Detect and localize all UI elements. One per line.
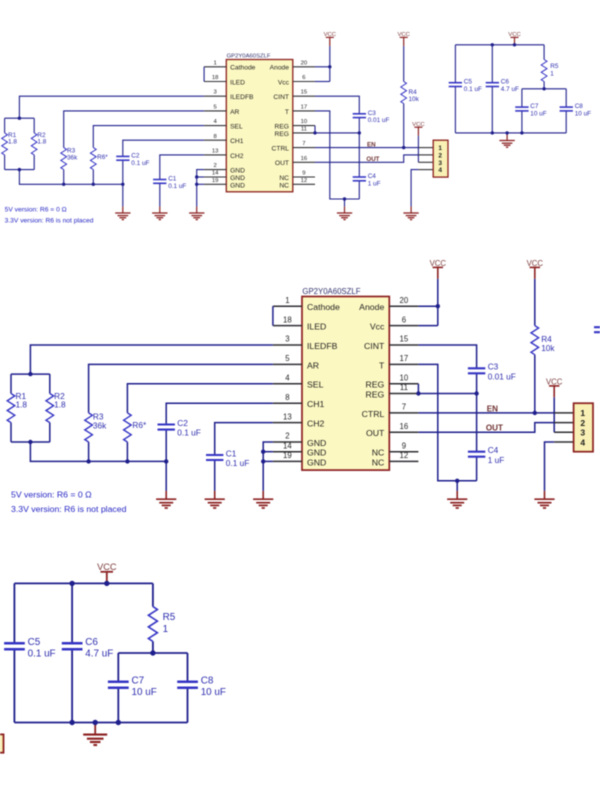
capacitor C5 0.1 uF (bottom) xyxy=(4,637,56,660)
IC pin 3 ILEDFB stub+label (top) xyxy=(204,90,254,101)
svg-text:C5: C5 xyxy=(28,637,41,648)
wire: Anode to VCC (middle) xyxy=(418,305,437,307)
wire: C7 lower lead (top) xyxy=(521,111,523,133)
junction node REG/C3/C4 (top) xyxy=(358,131,361,134)
svg-text:GND: GND xyxy=(230,182,245,189)
svg-text:36k: 36k xyxy=(67,154,78,161)
svg-text:T: T xyxy=(285,109,289,116)
wire: Anode to VCC (top) xyxy=(315,66,330,68)
svg-text:C7: C7 xyxy=(530,103,539,110)
wire: VCC drop (middle) xyxy=(437,279,439,326)
svg-text:C6: C6 xyxy=(85,637,98,648)
svg-text:0.1 uF: 0.1 uF xyxy=(177,428,201,438)
svg-text:REG: REG xyxy=(365,389,384,399)
wire: C4 upper lead (middle) xyxy=(476,394,478,452)
junction node C6 top (bottom) xyxy=(69,581,74,586)
svg-text:C4: C4 xyxy=(368,173,377,180)
svg-text:NC: NC xyxy=(279,182,289,189)
svg-text:10k: 10k xyxy=(541,343,555,353)
wire: C8 upper lead (top) xyxy=(565,89,567,107)
junction node R1R2 bottom (middle) xyxy=(28,440,32,444)
wire: R1 leads (middle) xyxy=(10,374,12,393)
svg-text:OUT: OUT xyxy=(366,428,385,438)
junction node C4 gnd rail (top) xyxy=(343,197,346,200)
svg-text:CH1: CH1 xyxy=(230,138,244,145)
svg-text:1.8: 1.8 xyxy=(54,400,66,410)
svg-text:C1: C1 xyxy=(168,176,177,183)
header J1 pin 3 stub (middle) xyxy=(554,431,573,433)
svg-text:5V version: R6 = 0 Ω: 5V version: R6 = 0 Ω xyxy=(11,490,92,500)
svg-text:VCC: VCC xyxy=(430,259,447,268)
svg-text:SEL: SEL xyxy=(230,124,243,131)
junction node rail/R3 (middle) xyxy=(86,459,90,463)
svg-text:10 uF: 10 uF xyxy=(530,110,546,117)
junction node VCC tap (bottom) xyxy=(104,581,109,586)
capacitor C3 0.01 uF (middle) xyxy=(468,362,516,382)
svg-text:Cathode: Cathode xyxy=(230,65,256,72)
capacitor C7 10 uF (top) xyxy=(515,103,547,117)
IC pin 5 AR stub+label (middle) xyxy=(273,354,319,370)
connector body fragment at left edge (bottom) xyxy=(0,734,4,752)
wire: C3 lower lead (middle) xyxy=(476,373,478,393)
svg-text:10 uF: 10 uF xyxy=(201,687,226,698)
wire: R1/R2 bottom rail (middle) xyxy=(11,441,50,443)
wire: R1 leads (top) xyxy=(4,118,6,133)
svg-text:3.3V version: R6 is not placed: 3.3V version: R6 is not placed xyxy=(11,504,127,514)
wire: ILEDFB net to R1/R2 (top) xyxy=(19,96,204,118)
capacitor C2 0.1 uF (middle) xyxy=(158,418,201,438)
wire: C5 lower lead (top) xyxy=(454,87,456,133)
IC pin 2 GND stub+label (top) xyxy=(204,163,245,175)
svg-text:VCC: VCC xyxy=(527,259,544,268)
svg-text:6: 6 xyxy=(402,315,406,324)
svg-text:CTRL: CTRL xyxy=(272,146,290,153)
resistor R6 (not placed) (top) xyxy=(90,148,108,170)
svg-text:Vcc: Vcc xyxy=(278,79,290,86)
junction node VCC tap (top) xyxy=(513,43,516,46)
wire: GND pin19 link (top) xyxy=(197,183,204,185)
wire: OUT net (middle) xyxy=(418,423,554,433)
wire: R6 lower lead (top) xyxy=(92,170,94,185)
svg-text:1.8: 1.8 xyxy=(8,139,17,146)
svg-text:1: 1 xyxy=(580,408,585,418)
wire: Cathode-ILED loop (middle) xyxy=(272,306,274,325)
svg-text:REG: REG xyxy=(365,380,384,390)
wire: C4 lower lead (middle) xyxy=(476,457,478,481)
svg-text:18: 18 xyxy=(283,315,292,324)
svg-text:REG: REG xyxy=(275,124,290,131)
wire: C6 branch (bottom) xyxy=(71,583,73,643)
svg-text:13: 13 xyxy=(212,148,219,154)
svg-text:0.1 uF: 0.1 uF xyxy=(168,183,186,190)
svg-text:0.1 uF: 0.1 uF xyxy=(28,648,56,659)
ground under C4 (middle) xyxy=(447,491,467,508)
junction node C7 bottom (bottom) xyxy=(116,720,121,725)
wire: REG pin10 elbow (middle) xyxy=(417,384,419,394)
wire: AR net (middle) xyxy=(89,364,273,413)
svg-text:7: 7 xyxy=(302,141,305,147)
svg-text:4: 4 xyxy=(214,119,218,125)
svg-text:ILED: ILED xyxy=(230,79,245,86)
wire: R2 upper lead (middle) xyxy=(49,374,51,393)
IC pin 16 OUT stub+label (middle) xyxy=(366,422,418,438)
svg-text:Anode: Anode xyxy=(359,302,384,312)
wire: REG bus to C3/C4 (top) xyxy=(315,132,359,134)
wire: SEL net (middle) xyxy=(127,384,273,413)
wire: bank top rail (bottom) xyxy=(14,582,153,584)
IC pin 12 NC stub+label (middle) xyxy=(372,451,419,467)
IC pin 6 Vcc stub+label (middle) xyxy=(370,315,419,331)
svg-text:C3: C3 xyxy=(368,110,377,117)
wire: ILEDFB net to R1/R2 (middle) xyxy=(30,345,273,374)
junction node C6 top (top) xyxy=(491,43,494,46)
svg-text:19: 19 xyxy=(283,451,292,460)
resistor R1 1.8 (middle) xyxy=(7,391,27,423)
svg-text:16: 16 xyxy=(400,422,409,431)
IC pin 18 ILED stub+label (top) xyxy=(204,75,245,86)
wire: C7 lower lead (bottom) xyxy=(117,688,119,723)
svg-text:8: 8 xyxy=(285,393,289,402)
svg-text:11: 11 xyxy=(301,126,307,132)
wire: R5 upper lead (top) xyxy=(543,45,545,60)
wire: C5 branch (top) xyxy=(454,45,456,83)
svg-text:10 uF: 10 uF xyxy=(575,110,591,117)
junction node GND pin14 (middle) xyxy=(261,450,265,454)
svg-text:Anode: Anode xyxy=(270,65,290,72)
svg-text:ILED: ILED xyxy=(307,322,326,332)
resistor R5 1 (bottom) xyxy=(148,607,175,642)
svg-text:14: 14 xyxy=(212,171,219,177)
IC pin 8 CH1 stub+label (middle) xyxy=(273,393,325,409)
svg-text:1.8: 1.8 xyxy=(37,139,46,146)
capacitor C3 0.01 uF (top) xyxy=(353,110,390,124)
resistor R4 10k (top) xyxy=(401,82,420,104)
wire: C8 lower lead (bottom) xyxy=(187,688,189,723)
svg-text:R5: R5 xyxy=(163,612,176,623)
capacitor C1 0.1 uF (middle) xyxy=(206,448,249,468)
IC pin 18 ILED stub+label (middle) xyxy=(273,315,326,331)
svg-text:15: 15 xyxy=(301,90,308,96)
ground under C4 (top) xyxy=(337,207,352,220)
svg-text:GND: GND xyxy=(307,457,326,467)
svg-text:C1: C1 xyxy=(226,448,237,458)
junction node ILEDFB/R1R2 top (top) xyxy=(18,117,21,120)
svg-text:20: 20 xyxy=(301,60,308,66)
IC pin 9 NC stub+label (top) xyxy=(279,171,315,182)
svg-text:C3: C3 xyxy=(488,362,499,372)
svg-text:3: 3 xyxy=(214,90,218,96)
wire: VCC to header pin3 (top) xyxy=(417,136,419,163)
wire: header pin4 to ground (top) xyxy=(411,170,418,207)
wire: bank ground stub (top) xyxy=(506,133,508,135)
VCC supply at header (top) xyxy=(412,122,425,136)
svg-text:4: 4 xyxy=(580,437,585,447)
svg-text:10k: 10k xyxy=(409,96,420,103)
wire: CTRL/EN net (top) xyxy=(315,147,418,149)
IC pin 13 CH2 stub+label (top) xyxy=(204,148,244,160)
wire: C4 ground stub (middle) xyxy=(456,481,458,491)
svg-text:0.01 uF: 0.01 uF xyxy=(368,117,390,124)
header J1 pin 3 stub (top) xyxy=(418,161,433,163)
wire: R5 lower lead (bottom) xyxy=(152,641,154,653)
capacitor C8 10 uF (top) xyxy=(560,103,592,117)
junction node GND pin14 (top) xyxy=(195,175,198,178)
wire: C2 lower lead (middle) xyxy=(165,430,167,462)
svg-text:0.1 uF: 0.1 uF xyxy=(131,160,149,167)
svg-text:0.1 uF: 0.1 uF xyxy=(226,458,250,468)
svg-text:GND: GND xyxy=(307,448,326,458)
wire: C1 lower lead (top) xyxy=(159,183,161,206)
svg-text:0.1 uF: 0.1 uF xyxy=(464,86,482,93)
op-amp/IC U1 GP2Y0A60SZLF body (middle) xyxy=(302,287,389,470)
wire: CH1 net to C2 (top) xyxy=(123,140,204,156)
wire: OUT net (top) xyxy=(315,155,418,162)
op-amp/IC U1 GP2Y0A60SZLF body (top) xyxy=(226,54,292,192)
IC pin 13 CH2 stub+label (middle) xyxy=(273,412,325,428)
junction node C6 bottom (top) xyxy=(491,131,494,134)
junction node R5 bottom (bottom) xyxy=(150,650,155,655)
svg-text:GND: GND xyxy=(307,438,326,448)
svg-text:C5: C5 xyxy=(464,79,473,86)
svg-text:12: 12 xyxy=(400,451,409,460)
wire: C4 upper lead (top) xyxy=(358,133,360,177)
wire: rail to ground stub (middle) xyxy=(165,461,167,491)
svg-text:4.7 uF: 4.7 uF xyxy=(501,86,519,93)
junction node EN/R4 (middle) xyxy=(533,411,537,415)
wire: VCC tap (top) xyxy=(514,43,516,46)
svg-text:9: 9 xyxy=(402,441,406,450)
junction node REG join (top) xyxy=(313,131,316,134)
svg-text:14: 14 xyxy=(283,441,292,450)
svg-text:10 uF: 10 uF xyxy=(132,687,157,698)
svg-text:10: 10 xyxy=(301,119,308,125)
junction node rail/C2 (middle) xyxy=(164,459,168,463)
svg-text:12: 12 xyxy=(301,178,308,184)
svg-text:16: 16 xyxy=(301,156,308,162)
wire: SEL net (top) xyxy=(93,126,204,148)
IC pin 12 NC stub+label (top) xyxy=(279,178,315,190)
svg-text:CINT: CINT xyxy=(364,341,385,351)
wire: C7/C8 mid rail (top) xyxy=(522,88,566,90)
resistor R2 1.8 (top) xyxy=(31,132,46,155)
wire: GND pins bus (middle) xyxy=(263,442,273,491)
wire: VCC to header pin3 (middle) xyxy=(553,397,555,432)
resistor R1 1.8 (top) xyxy=(2,132,18,155)
svg-text:C8: C8 xyxy=(201,675,214,686)
svg-text:SEL: SEL xyxy=(307,380,324,390)
capacitor C1 0.1 uF (top) xyxy=(153,176,186,190)
svg-text:R6*: R6* xyxy=(97,154,108,161)
svg-text:20: 20 xyxy=(400,296,409,305)
svg-text:3.3V version: R6 is not placed: 3.3V version: R6 is not placed xyxy=(5,218,94,225)
resistor R3 36k (middle) xyxy=(85,412,107,442)
wire: Vcc pin link (top) xyxy=(315,81,330,83)
ground under GND pins (middle) xyxy=(253,491,273,508)
VCC supply over IC (middle) xyxy=(430,259,447,279)
svg-text:3: 3 xyxy=(438,160,442,167)
ground under C1 (middle) xyxy=(205,491,225,508)
svg-text:R6*: R6* xyxy=(132,420,147,430)
svg-text:1 uF: 1 uF xyxy=(368,180,381,187)
svg-text:GP2Y0A60SZLF: GP2Y0A60SZLF xyxy=(227,54,271,60)
header J1 pin 1 stub (middle) xyxy=(554,412,573,414)
header J1 pin 2 stub (top) xyxy=(418,154,433,156)
wire: CH1 net to C2 (middle) xyxy=(166,403,273,424)
junction node rail/R6 (top) xyxy=(92,183,95,186)
wire: GND pin14 link (top) xyxy=(197,176,204,178)
IC pin 15 CINT stub+label (middle) xyxy=(364,335,418,351)
wire: C1 lower lead (middle) xyxy=(214,460,216,491)
svg-text:0.01 uF: 0.01 uF xyxy=(488,371,516,381)
svg-text:NC: NC xyxy=(372,448,385,458)
wire: C6 lower lead (bottom) xyxy=(71,649,73,722)
junction node C4 gnd rail (middle) xyxy=(455,479,459,483)
svg-text:T: T xyxy=(379,360,385,370)
wire: C8 upper lead (bottom) xyxy=(187,653,189,682)
wire: Vcc pin link (middle) xyxy=(418,325,437,327)
capacitor C6 4.7 uF (top) xyxy=(486,79,519,93)
ground under bank (top) xyxy=(499,134,514,147)
wire: C8 lower lead (top) xyxy=(565,111,567,133)
svg-text:7: 7 xyxy=(402,403,406,412)
VCC supply over R4 (middle) xyxy=(527,259,544,279)
junction node GND pin19 (middle) xyxy=(261,459,265,463)
svg-text:Vcc: Vcc xyxy=(370,322,385,332)
IC pin 4 SEL stub+label (middle) xyxy=(273,374,324,390)
IC pin 11 REG stub+label (top) xyxy=(275,126,316,137)
wire: GND pin14 link (middle) xyxy=(263,451,273,453)
svg-text:4.7 uF: 4.7 uF xyxy=(85,648,113,659)
wire: AR net (top) xyxy=(64,111,204,148)
wire: C7 upper lead (bottom) xyxy=(117,653,119,682)
VCC supply at header (middle) xyxy=(546,377,563,397)
svg-text:EN: EN xyxy=(487,404,498,413)
wire: C2 lower lead (top) xyxy=(122,160,124,184)
wire: T net down (middle) xyxy=(418,364,476,480)
wire: VCC drop (top) xyxy=(329,46,331,82)
junction node C6 bottom (bottom) xyxy=(69,720,74,725)
IC pin 17 T stub+label (top) xyxy=(285,104,315,115)
wire: rail to ground stub (top) xyxy=(122,184,124,206)
resistor R3 36k (top) xyxy=(61,148,78,170)
junction node VCC/Anode (middle) xyxy=(436,304,440,308)
wire: R6 lower lead (middle) xyxy=(126,442,128,461)
junction node R5 bottom (top) xyxy=(542,87,545,90)
IC pin 15 CINT stub+label (top) xyxy=(273,90,315,101)
svg-text:Cathode: Cathode xyxy=(307,302,340,312)
IC pin 5 AR stub+label (top) xyxy=(204,104,239,115)
svg-text:C2: C2 xyxy=(177,418,188,428)
VCC supply over IC (top) xyxy=(324,32,337,46)
svg-text:18: 18 xyxy=(212,75,219,81)
header J1 1x4 body (top) xyxy=(433,140,448,177)
wire: C7 upper lead (top) xyxy=(521,89,523,107)
wire: R1/R2 top rail (top) xyxy=(5,117,35,119)
capacitor C5 plate fragment at right edge (middle) xyxy=(594,327,600,332)
svg-text:1: 1 xyxy=(163,624,169,635)
junction node rail/R3 (top) xyxy=(62,183,65,186)
VCC supply over R4 (top) xyxy=(397,32,410,46)
capacitor C8 10 uF (bottom) xyxy=(177,675,226,698)
svg-text:1: 1 xyxy=(214,60,217,66)
svg-text:GND: GND xyxy=(230,168,245,175)
junction node bank ground (bottom) xyxy=(93,720,98,725)
svg-text:VCC: VCC xyxy=(97,562,117,572)
wire: R4 lower lead (middle) xyxy=(534,355,536,413)
junction node R1R2 bottom (top) xyxy=(18,168,21,171)
IC pin 19 GND stub+label (middle) xyxy=(273,451,326,467)
header J1 pin 2 stub (middle) xyxy=(554,422,573,424)
ground under bank (bottom) xyxy=(83,725,107,745)
junction node rail/R6 (middle) xyxy=(125,459,129,463)
IC pin 4 SEL stub+label (top) xyxy=(204,119,243,130)
svg-text:1 uF: 1 uF xyxy=(488,455,505,465)
capacitor C7 10 uF (bottom) xyxy=(108,675,157,698)
resistor R6 (not placed) (middle) xyxy=(124,413,147,442)
svg-text:OUT: OUT xyxy=(486,424,503,433)
svg-text:C4: C4 xyxy=(488,445,499,455)
svg-text:13: 13 xyxy=(283,412,292,421)
svg-text:4: 4 xyxy=(438,167,442,174)
wire: REG bus to C3/C4 (middle) xyxy=(418,393,476,395)
svg-text:1.8: 1.8 xyxy=(16,400,28,410)
junction node REG join (middle) xyxy=(416,391,420,395)
svg-text:9: 9 xyxy=(302,171,305,177)
svg-text:3: 3 xyxy=(285,335,289,344)
wire: R4 lower lead (top) xyxy=(403,104,405,148)
svg-text:R5: R5 xyxy=(550,63,559,70)
svg-text:GP2Y0A60SZLF: GP2Y0A60SZLF xyxy=(302,287,360,296)
svg-text:1: 1 xyxy=(438,145,442,152)
svg-text:ILEDFB: ILEDFB xyxy=(307,341,338,351)
ground under GND pins (top) xyxy=(189,207,204,220)
IC pin 20 Anode stub+label (top) xyxy=(270,60,315,71)
svg-text:C6: C6 xyxy=(501,79,510,86)
svg-text:17: 17 xyxy=(400,354,409,363)
svg-text:NC: NC xyxy=(372,457,385,467)
svg-text:15: 15 xyxy=(400,335,409,344)
wire: C6 branch (top) xyxy=(491,45,493,83)
resistor R2 1.8 (middle) xyxy=(46,391,66,423)
wire: R1 lower lead (middle) xyxy=(10,423,12,442)
header J1 pin 4 stub (middle) xyxy=(554,441,573,443)
IC pin 1 Cathode stub+label (top) xyxy=(204,60,256,71)
wire: C4 ground stub (top) xyxy=(344,199,346,207)
ground under rail (top) xyxy=(115,207,130,220)
junction node ILEDFB/R1R2 top (middle) xyxy=(28,372,32,376)
svg-text:OUT: OUT xyxy=(366,156,379,163)
svg-text:CINT: CINT xyxy=(273,94,289,101)
header J1 pin 1 stub (top) xyxy=(418,147,433,149)
junction node EN/R4 (top) xyxy=(402,146,405,149)
wire: header pin4 to ground (middle) xyxy=(545,442,555,491)
svg-text:5: 5 xyxy=(214,104,218,110)
svg-text:6: 6 xyxy=(302,75,306,81)
svg-text:1: 1 xyxy=(550,71,554,78)
wire: R1 lower lead (top) xyxy=(4,155,6,170)
wire: C5 lower lead (bottom) xyxy=(13,649,15,722)
svg-text:8: 8 xyxy=(214,134,218,140)
svg-text:17: 17 xyxy=(301,104,308,110)
svg-text:GND: GND xyxy=(230,175,245,182)
svg-text:2: 2 xyxy=(285,432,289,441)
svg-text:CH2: CH2 xyxy=(230,153,244,160)
svg-text:5V version: R6 = 0 Ω: 5V version: R6 = 0 Ω xyxy=(5,207,67,214)
IC pin 17 T stub+label (middle) xyxy=(379,354,418,370)
capacitor C4 1 uF (top) xyxy=(353,173,381,187)
svg-text:36k: 36k xyxy=(93,420,107,430)
IC pin 1 Cathode stub+label (middle) xyxy=(273,296,340,312)
